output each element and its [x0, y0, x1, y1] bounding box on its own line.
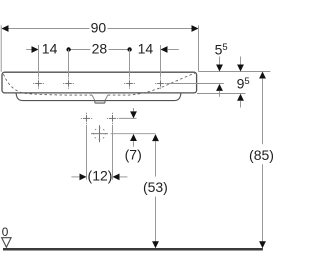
rim top reference line A — [199, 71, 271, 73]
label (85) — [249, 147, 274, 163]
tap extension line 4 — [160, 45, 162, 78]
dimension (12) extension line right — [112, 125, 114, 180]
zero level label — [2, 225, 9, 239]
label (53) — [143, 179, 168, 195]
label 14 (right) — [138, 41, 154, 57]
washbasin body outline — [2, 72, 197, 93]
svg-text:90: 90 — [91, 19, 107, 35]
label 14 (left) — [42, 41, 58, 57]
tap extension line 3 — [129, 50, 131, 78]
dimension 90 label — [91, 19, 107, 35]
label 28 — [92, 41, 108, 57]
body bottom reference line C — [197, 93, 245, 95]
label (7) — [125, 147, 142, 163]
fixing hole cross left — [81, 113, 92, 124]
washbasin apron (lower deep section) — [16, 93, 181, 101]
svg-text:(7): (7) — [125, 147, 142, 163]
tap hole cross 3 — [124, 78, 135, 89]
svg-text:28: 28 — [92, 41, 108, 57]
dimension 14-28-14 line — [26, 46, 179, 53]
label (12) — [88, 168, 113, 184]
svg-text:0: 0 — [2, 225, 9, 239]
extension line left — [0, 25, 2, 71]
dimension (53) line — [152, 134, 159, 248]
dimension 90 line — [2, 25, 199, 32]
dimension (12) extension line left — [86, 125, 88, 180]
tap hole cross 2 — [63, 78, 74, 89]
fixing holes reference line — [119, 117, 137, 119]
drain outlet boss — [92, 95, 108, 103]
drain axis reference line — [111, 133, 156, 135]
svg-text:(85): (85) — [249, 147, 273, 163]
tap extension line 2 — [68, 50, 70, 78]
svg-text:14: 14 — [42, 41, 58, 57]
dimension (7) arrows — [130, 108, 137, 147]
hidden bowl contour (dashed) — [3, 73, 195, 95]
fixing hole cross right — [107, 113, 118, 124]
svg-text:14: 14 — [138, 41, 154, 57]
tap hole cross 4 — [155, 78, 166, 89]
dimension (12) arrows — [71, 174, 127, 181]
dimension 9.5 arrows — [237, 57, 244, 108]
drain hole cross — [91, 125, 108, 142]
svg-text:(12): (12) — [88, 168, 113, 184]
tap extension line 1 — [38, 45, 40, 78]
dimension 5.5 arrows — [216, 57, 223, 97]
zero level triangle marker — [2, 238, 11, 248]
floor line — [3, 248, 263, 251]
tap hole cross 1 — [33, 78, 44, 89]
dimension (85) line — [259, 72, 266, 249]
label 9^5 — [237, 76, 250, 92]
label 5^5 — [215, 42, 228, 58]
svg-text:(53): (53) — [143, 179, 168, 195]
extension line right — [198, 25, 200, 71]
tap axis reference line B — [167, 83, 224, 85]
